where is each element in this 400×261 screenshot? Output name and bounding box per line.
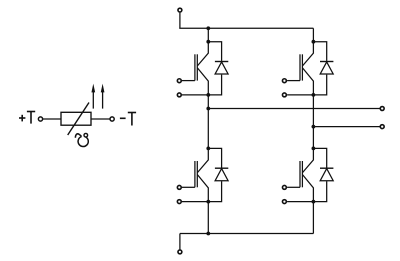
wire right leg middle [312,95,314,148]
heat flow arrow 1 [91,84,95,109]
transistor Q3 gate bar [194,161,196,187]
diode D2 cathode bar [320,61,333,63]
node Q1 emitter [206,93,210,97]
transistor Q2 body bar [301,54,303,80]
transistor Q4 body bar [301,161,303,187]
node Q2 emitter [312,93,316,97]
transistor Q3 body bar [196,161,198,187]
diode D4 triangle [320,169,333,181]
wire Q3 gate lead [182,186,195,188]
node Q2 collector [312,40,316,44]
wire left leg lower stub [207,202,209,234]
junction right leg / AC2 rail [312,125,316,129]
auxiliary emitter terminal 3E [177,200,181,204]
wire D2 cathode branch [313,42,326,61]
gate terminal 1G [177,79,181,83]
node Q3 collector [206,147,210,151]
node Q4 collector [312,147,316,151]
transistor Q1 body bar [196,54,198,80]
wire DC+ terminal drop [179,13,181,29]
wire D1 anode branch [208,75,221,95]
AC1 terminal [380,107,384,111]
thermistor label +T [19,112,35,124]
wire D4 anode branch [313,181,326,201]
thermistor R1 body [61,112,91,125]
wire right leg upper stub [312,28,314,41]
transistor Q2 gate bar [299,54,301,80]
DC- terminal [178,250,182,254]
wire D2 anode branch [313,75,326,95]
junction left leg / AC1 rail [206,107,210,111]
wire AC2 rail [313,126,380,128]
gate terminal 3G [177,185,181,189]
temperature symbol theta [75,133,88,146]
transistor Q1 emitter lead [197,68,208,95]
gate terminal 2G [282,79,286,83]
transistor Q1 collector lead [197,42,208,66]
thermistor terminal -T [110,117,114,121]
wire Q1 gate lead [182,80,195,82]
gate terminal 4G [282,185,286,189]
wire D3 cathode branch [208,148,221,167]
wire bottom rail [180,233,314,235]
junction top rail / left leg [206,26,210,30]
node Q3 emitter [206,200,210,204]
wire DC- terminal drop [179,234,181,250]
heat flow arrow 2 [101,84,105,109]
wire left leg upper stub [207,28,209,41]
wire thermistor to -T terminal [91,118,110,120]
wire D3 anode branch [208,181,221,201]
wire Q4 gate lead [287,186,300,188]
wire top rail [180,27,314,30]
diode D3 cathode bar [215,167,228,169]
auxiliary emitter terminal 4E [282,200,286,204]
transistor Q4 gate bar [299,161,301,187]
wire Q1 auxiliary emitter lead [182,94,208,96]
wire D4 cathode branch [313,148,326,167]
diode D2 triangle [320,62,333,74]
junction bottom rail / left leg [206,232,210,236]
DC+ terminal [178,8,182,12]
wire +T terminal to thermistor [43,118,61,120]
transistor Q4 emitter lead [303,175,314,202]
transistor Q2 emitter lead [303,68,314,95]
AC2 terminal [380,125,384,129]
wire left leg middle [207,95,209,148]
diode D4 cathode bar [320,167,333,169]
auxiliary emitter terminal 2E [282,93,286,97]
diode D1 cathode bar [215,61,228,63]
transistor Q2 collector lead [303,42,314,66]
wire D1 cathode branch [208,42,221,61]
diode D1 triangle [215,62,228,74]
wire Q3 auxiliary emitter lead [182,201,208,203]
node Q1 collector [206,40,210,44]
wire Q2 auxiliary emitter lead [287,94,313,96]
wire right leg lower stub [312,202,314,234]
transistor Q4 collector lead [303,148,314,172]
thermistor label -T [120,113,136,126]
auxiliary emitter terminal 1E [177,93,181,97]
transistor Q3 collector lead [197,148,208,172]
thermistor terminal +T [38,117,42,121]
wire AC1 rail [208,108,380,110]
thermistor R1 diagonal stroke [68,103,89,136]
diode D3 triangle [215,169,228,181]
wire Q4 auxiliary emitter lead [287,201,313,203]
node Q4 emitter [312,200,316,204]
wire Q2 gate lead [287,80,300,82]
transistor Q1 gate bar [194,54,196,80]
transistor Q3 emitter lead [197,175,208,202]
